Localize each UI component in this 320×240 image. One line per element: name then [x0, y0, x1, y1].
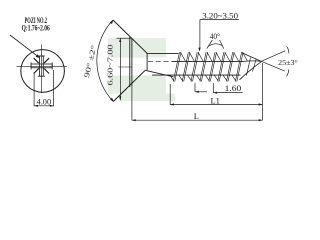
watermark green band upper	[108, 38, 166, 58]
vertical centerline	[41, 45, 43, 94]
threads	[170, 52, 256, 81]
root bottom line	[152, 74, 241, 76]
svg-text:4.00: 4.00	[37, 97, 52, 106]
head flat face outer	[129, 37, 131, 87]
25 degree arc hooks	[287, 46, 289, 53]
horizontal centerline	[17, 65, 68, 67]
dim 1.60 left hook	[194, 83, 196, 92]
svg-text:6.60~7.00: 6.60~7.00	[106, 44, 115, 85]
dim L line	[132, 119, 263, 121]
tip extension line	[262, 63, 264, 120]
svg-text:Q:1.76~2.06: Q:1.76~2.06	[22, 23, 50, 32]
pozi recess horizontal slot	[31, 64, 52, 68]
watermark green band lower	[108, 76, 166, 94]
shank top line	[147, 52, 178, 54]
pozi recess vertical slot	[31, 56, 52, 76]
25 degree annotation lower line	[261, 61, 284, 71]
cone bottom line (extension + surface)	[113, 70, 145, 101]
face extension to L dim	[131, 86, 133, 121]
3.20~3.50 leader	[199, 20, 201, 49]
L1 extension line at thread start	[169, 84, 171, 105]
dimension 4.00 extension lines	[33, 73, 35, 106]
pozi wings diagonals	[34, 58, 49, 73]
shank bottom line	[145, 70, 173, 77]
40 degree arc	[209, 44, 222, 46]
taper upper root curve	[243, 60, 261, 63]
taper upper envelope	[242, 53, 262, 62]
svg-text:90° ±2°: 90° ±2°	[82, 44, 98, 78]
head axis stub	[118, 66, 131, 68]
head top-view circle	[21, 50, 65, 93]
svg-text:L1: L1	[210, 96, 219, 106]
dim L1 line	[170, 104, 262, 106]
junction edge	[146, 53, 148, 70]
dim 1.60 right hook	[212, 83, 214, 93]
svg-text:25±3°: 25±3°	[278, 59, 298, 67]
dim 6.60~7.00 top extension	[117, 37, 132, 39]
90 degree dimension arc	[97, 20, 113, 102]
root top line	[172, 60, 244, 62]
svg-text:L: L	[194, 111, 199, 121]
cone top line (extension + surface)	[113, 20, 147, 53]
dimension 4.00 line	[34, 105, 54, 107]
taper lower envelope	[240, 62, 262, 80]
3.20~3.50 underline	[200, 19, 239, 21]
root top hidden (dashed)	[148, 60, 172, 62]
40 degree flank lines	[207, 40, 212, 49]
leader to pozi recess	[10, 35, 38, 57]
head flat face inner	[131, 38, 133, 85]
svg-text:40°: 40°	[210, 32, 221, 41]
watermark green band bottom	[120, 94, 175, 102]
svg-text:1.60: 1.60	[225, 84, 242, 93]
25 degree annotation upper line	[261, 51, 285, 62]
dim 6.60~7.00 line	[119, 38, 121, 100]
